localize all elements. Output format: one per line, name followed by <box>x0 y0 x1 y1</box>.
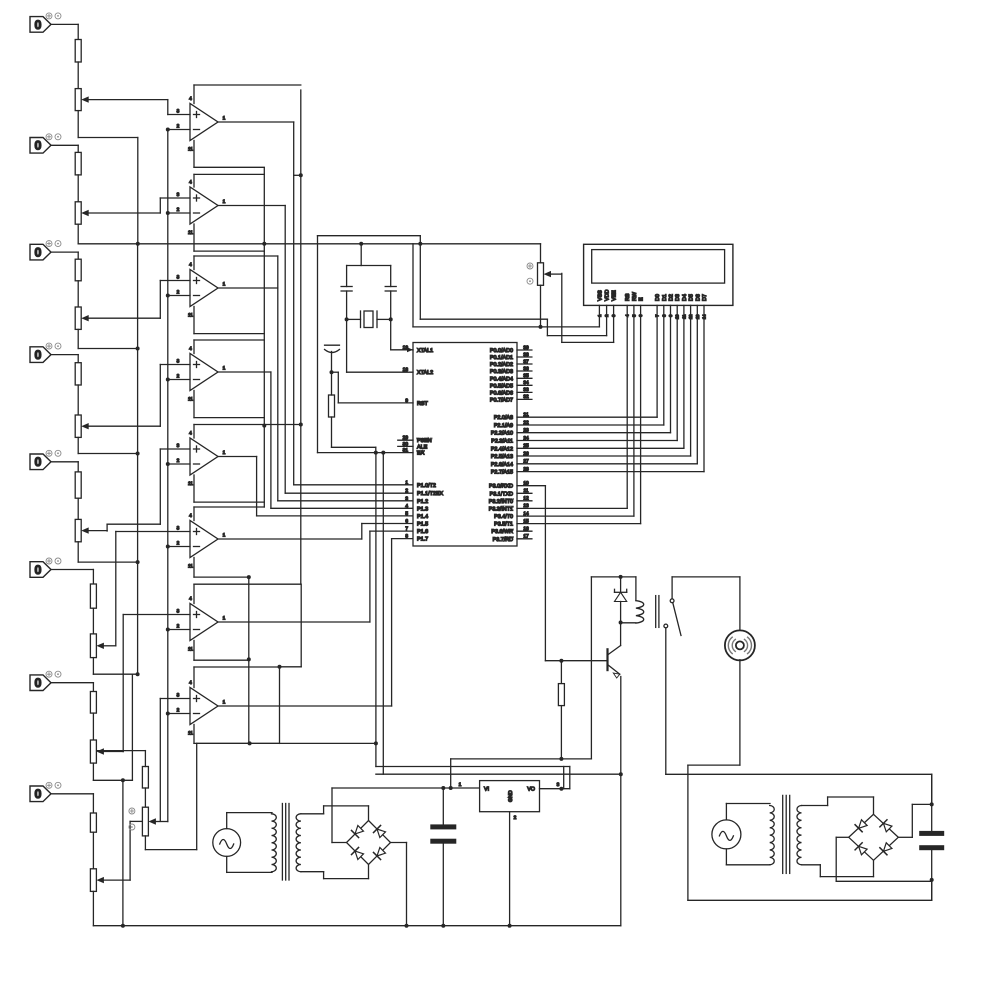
motor M1 <box>672 577 755 661</box>
svg-text:P2.6/A14: P2.6/A14 <box>491 462 513 468</box>
svg-text:P1.4: P1.4 <box>417 514 428 520</box>
wire op5 V+ rail (pin 4) <box>194 425 301 439</box>
wire op7 output to P1.6 <box>218 531 413 622</box>
wire R6 to RV6 <box>92 608 94 634</box>
wire power column A x264 <box>262 168 266 507</box>
wire ladder row ch6 <box>93 672 139 676</box>
wire op8 V+ rail (pin 4) <box>194 667 280 688</box>
wire ladder row ch1 to riser <box>78 138 138 244</box>
svg-text:11: 11 <box>188 397 193 403</box>
wire op8 - input stub <box>166 712 190 716</box>
svg-text:4: 4 <box>405 503 408 509</box>
resistor R5 <box>75 472 81 498</box>
wire TR2 secondary top to bridge <box>802 797 874 814</box>
svg-text:P2.5/A13: P2.5/A13 <box>491 454 513 460</box>
input terminal flag IN3 <box>30 241 61 260</box>
AC source V2 <box>712 804 770 865</box>
svg-text:D4: D4 <box>682 294 688 301</box>
svg-text:P1.6: P1.6 <box>417 529 428 535</box>
svg-text:2: 2 <box>514 815 517 821</box>
switch contact SW (relay) <box>664 577 681 774</box>
wire op2 - input stub <box>166 211 190 215</box>
svg-text:P0.0/AD0: P0.0/AD0 <box>490 348 513 354</box>
potentiometer RV4 <box>75 415 160 437</box>
wire inverting reference bus x168 <box>167 130 169 714</box>
svg-text:0: 0 <box>35 563 42 577</box>
svg-text:4: 4 <box>189 680 192 686</box>
wire flag IN3 to divider column <box>51 252 78 259</box>
svg-text:11: 11 <box>188 147 193 153</box>
svg-text:P2.3/A11: P2.3/A11 <box>491 439 513 445</box>
wire Q1 emitter to ground rail <box>619 677 623 926</box>
wire op5 GND rail (pin 11) <box>194 475 264 502</box>
svg-text:VSS: VSS <box>597 290 603 301</box>
wire ladder row ch4 <box>78 452 139 456</box>
wire R7 to RV7 <box>92 713 94 740</box>
svg-text:0: 0 <box>35 18 42 32</box>
svg-text:0: 0 <box>35 787 42 801</box>
LCD module LCD1 <box>584 244 733 319</box>
svg-text:3: 3 <box>177 609 180 615</box>
wire op7 - input stub <box>166 628 190 632</box>
svg-text:E: E <box>639 297 645 301</box>
crystal X1 <box>345 311 393 328</box>
wire op3 - input stub <box>166 294 190 298</box>
input terminal flag IN7 <box>30 671 61 690</box>
wire XTAL2 <box>347 319 413 372</box>
input terminal flag IN5 <box>30 450 61 469</box>
wire LCD data bus D0-D7 to P2 <box>517 305 704 471</box>
wire R2 to RV2 <box>77 175 79 202</box>
transformer TR2 <box>770 795 802 873</box>
wire BR2 left output <box>836 837 932 881</box>
wire emitter return <box>376 773 621 775</box>
potentiometer RV9 (reference) <box>129 807 168 836</box>
svg-text:0: 0 <box>35 246 42 260</box>
potentiometer RV7 <box>90 740 123 763</box>
svg-text:17: 17 <box>523 534 529 540</box>
capacitor C3 (reset) <box>325 345 340 374</box>
wire RV7 bottom <box>92 763 94 780</box>
wire MCU P2 pin numbers <box>523 412 529 472</box>
wire R3 to RV3 <box>77 281 79 307</box>
svg-text:0: 0 <box>35 455 42 469</box>
wire MCU P3 stubs <box>517 481 532 540</box>
wire R8 to RV8 <box>92 832 94 869</box>
voltage regulator U10 7805 <box>459 781 560 821</box>
svg-text:6: 6 <box>405 519 408 525</box>
svg-text:P3.1/TXD: P3.1/TXD <box>490 491 513 497</box>
svg-text:3: 3 <box>177 443 180 449</box>
wire RV6 wiper riser to op6 + <box>115 532 117 646</box>
resistor R6 <box>90 584 96 608</box>
op-amp U5 <box>177 431 226 488</box>
capacitor C1 <box>341 266 352 320</box>
wire op8 bottom rail extension <box>197 741 378 745</box>
diode D1 (flyback) <box>615 577 627 625</box>
wire ladder riser to ground rail <box>121 780 125 927</box>
resistor R4 <box>75 363 81 385</box>
svg-text:P1.0/T2: P1.0/T2 <box>417 483 436 489</box>
svg-text:D7: D7 <box>702 294 708 301</box>
svg-text:0: 0 <box>35 676 42 690</box>
svg-text:P0.3/AD3: P0.3/AD3 <box>490 369 513 375</box>
wire long vertical x383 <box>382 453 384 775</box>
wire R4 to RV4 <box>77 385 79 415</box>
svg-text:4: 4 <box>189 262 192 268</box>
svg-text:1: 1 <box>223 533 226 539</box>
svg-text:11: 11 <box>188 647 193 653</box>
svg-text:P0.2/AD2: P0.2/AD2 <box>490 362 513 368</box>
wire op6 V+ rail (pin 4) <box>194 507 264 521</box>
svg-text:36: 36 <box>523 366 529 372</box>
op-amp U6 <box>177 513 226 570</box>
wire relay supply rail <box>591 575 636 759</box>
op-amp U2 <box>177 180 226 237</box>
wire op3 GND rail (pin 11) <box>194 307 264 334</box>
wire XTAL1 <box>391 319 413 352</box>
svg-text:P1.2: P1.2 <box>417 499 428 505</box>
wire op6 + input <box>116 531 190 533</box>
wire flag IN5 to divider column <box>51 462 78 472</box>
wire R1 to RV1 <box>77 62 79 89</box>
svg-text:P0.5/AD5: P0.5/AD5 <box>490 383 513 389</box>
svg-text:11: 11 <box>188 481 193 487</box>
wire crystal top node <box>347 244 391 266</box>
wire op1 - input stub <box>166 128 190 132</box>
svg-text:1: 1 <box>223 450 226 456</box>
svg-text:11: 11 <box>188 564 193 570</box>
wire op8 GND rail (pin 11) <box>194 725 278 744</box>
svg-text:XTAL1: XTAL1 <box>417 348 433 354</box>
wire GND drop to LCD VSS <box>413 244 599 329</box>
wire RST node jog <box>332 372 414 403</box>
svg-text:2: 2 <box>177 207 180 213</box>
svg-text:32: 32 <box>523 394 529 400</box>
svg-text:39: 39 <box>523 345 529 351</box>
svg-text:2: 2 <box>405 488 408 494</box>
wire RV5 bottom <box>77 542 79 562</box>
wire BR1 - output to ground rail <box>391 843 409 928</box>
svg-text:3: 3 <box>177 275 180 281</box>
potentiometer RV10 (LCD contrast) <box>527 244 562 327</box>
svg-text:XTAL2: XTAL2 <box>417 370 433 376</box>
wire op3 + input <box>160 281 190 319</box>
svg-text:1: 1 <box>223 616 226 622</box>
wire RV6 bottom <box>92 658 94 675</box>
svg-text:4: 4 <box>189 96 192 102</box>
wire ladder main ground row y244 <box>78 242 540 246</box>
potentiometer RV1 <box>75 89 168 111</box>
capacitor C4 (smoothing) <box>430 788 456 928</box>
svg-text:2: 2 <box>177 124 180 130</box>
wire MCU P0 stubs <box>517 345 532 400</box>
op-amp U1 <box>177 96 226 153</box>
wire TR1 secondary top to bridge <box>301 806 369 821</box>
wire op7 V+ rail (pin 4) <box>194 584 301 603</box>
wire RV9 wiper to inverting bus <box>167 714 169 822</box>
wire RV2 bottom <box>77 224 79 244</box>
svg-text:1: 1 <box>405 480 408 486</box>
wire op1 GND rail (pin 11) <box>194 141 264 168</box>
wire power column low x249 <box>247 575 251 743</box>
wire EA tie-high run <box>318 236 421 455</box>
wire op4 + input <box>160 365 190 427</box>
svg-text:P1.5: P1.5 <box>417 522 428 528</box>
svg-text:RS: RS <box>625 293 631 301</box>
bridge rectifier BR1 <box>347 821 391 865</box>
svg-text:12: 12 <box>523 496 529 502</box>
svg-text:P2.7/A15: P2.7/A15 <box>491 470 513 476</box>
resistor R3 <box>75 259 81 281</box>
svg-text:GND: GND <box>508 790 514 802</box>
op-amp U4 <box>177 346 226 403</box>
svg-text:7: 7 <box>405 526 408 532</box>
wire TR1 secondary bottom to bridge <box>301 865 369 879</box>
svg-text:2: 2 <box>177 290 180 296</box>
op-amp U3 <box>177 262 226 319</box>
wire flag IN4 to divider column <box>51 355 78 363</box>
svg-text:VO: VO <box>527 787 535 793</box>
svg-text:1: 1 <box>223 199 226 205</box>
svg-text:P0.7/AD7: P0.7/AD7 <box>490 397 513 403</box>
wire op6 output to P1.5 <box>218 524 413 540</box>
wire op5 - input stub <box>166 462 190 466</box>
wire op8 + feed riser <box>159 699 161 822</box>
microcontroller U9 AT89C51 <box>403 343 517 547</box>
svg-text:3: 3 <box>405 496 408 502</box>
svg-text:11: 11 <box>188 230 193 236</box>
wire U10 VO loop <box>376 767 570 791</box>
wire motor to right supply <box>688 660 740 901</box>
wire flag IN7 to divider column <box>51 683 93 692</box>
wire RV7 wiper riser to op7 + <box>122 615 124 752</box>
input terminal flag IN6 <box>30 558 61 577</box>
svg-text:P1.1/T2EX: P1.1/T2EX <box>417 491 443 497</box>
potentiometer RV6 <box>90 634 115 658</box>
svg-text:P2.0/A8: P2.0/A8 <box>494 415 513 421</box>
resistor R10 (reset pulldown) <box>329 372 335 417</box>
svg-text:D2: D2 <box>669 294 675 301</box>
svg-text:2: 2 <box>177 541 180 547</box>
svg-text:VI: VI <box>484 787 489 793</box>
wire right supply loop <box>688 774 932 900</box>
wire op1 output to P1.0 <box>218 122 413 485</box>
wire op5 + input <box>107 449 190 531</box>
wire op4 output to P1.3 <box>218 372 413 508</box>
resistor R2 <box>75 152 81 175</box>
wire RV9 bottom loop <box>145 743 196 849</box>
wire ladder row ch3 <box>78 347 139 351</box>
svg-text:37: 37 <box>523 359 529 365</box>
wire RV8 wiper riser <box>130 821 142 880</box>
wire RV3 bottom <box>77 329 79 348</box>
svg-text:3: 3 <box>177 359 180 365</box>
svg-text:1: 1 <box>223 366 226 372</box>
potentiometer RV2 <box>75 202 160 224</box>
potentiometer RV5 <box>75 519 107 541</box>
resistor R8 <box>90 813 96 832</box>
input terminal flag IN8 <box>30 782 61 801</box>
svg-text:D0: D0 <box>655 294 661 301</box>
wire VCC drop to LCD VDD <box>420 236 606 336</box>
svg-text:3: 3 <box>177 192 180 198</box>
potentiometer RV8 <box>90 869 130 892</box>
svg-text:VDD: VDD <box>605 290 611 301</box>
svg-text:0: 0 <box>35 348 42 362</box>
wire ladder riser x137 <box>137 244 139 674</box>
wire op4 V+ rail (pin 4) <box>194 340 264 354</box>
wire BR1 + output <box>332 786 480 843</box>
wire flag IN6 to divider column <box>51 570 93 585</box>
svg-text:P0.1/AD1: P0.1/AD1 <box>490 355 513 361</box>
wire ladder riser ch6-ch7 <box>131 674 133 780</box>
svg-text:11: 11 <box>188 731 193 737</box>
resistor R11 (base) <box>558 661 564 761</box>
wire op3 output to P1.2 <box>218 256 413 501</box>
wire PSEN stub <box>398 439 413 441</box>
wire op7 GND rail (pin 11) <box>194 641 249 661</box>
svg-text:2: 2 <box>177 458 180 464</box>
svg-text:1: 1 <box>223 116 226 122</box>
resistor R9 (reference divider top) <box>97 751 149 788</box>
svg-text:2: 2 <box>177 708 180 714</box>
svg-text:D3: D3 <box>675 294 681 301</box>
op-amp U8 <box>177 680 226 737</box>
svg-text:4: 4 <box>189 431 192 437</box>
wire op7 + input <box>123 614 190 616</box>
svg-text:4: 4 <box>189 596 192 602</box>
svg-text:ALE: ALE <box>417 444 428 450</box>
wire ladder row ch5 <box>78 560 139 564</box>
svg-text:3: 3 <box>177 693 180 699</box>
wire ladder row ch7 <box>93 778 132 782</box>
wire R5 to RV5 <box>77 498 79 519</box>
svg-text:P0.6/AD6: P0.6/AD6 <box>490 390 513 396</box>
wire switch to right supply <box>666 773 932 775</box>
svg-text:P0.4/AD4: P0.4/AD4 <box>490 376 513 382</box>
wire op2 + input <box>160 198 190 213</box>
wire op3 V+ rail (pin 4) <box>194 256 278 270</box>
wire ALE stub <box>398 445 413 447</box>
svg-text:11: 11 <box>524 488 529 494</box>
svg-text:1: 1 <box>223 282 226 288</box>
wire op8 + input <box>160 698 190 700</box>
svg-text:RW: RW <box>632 291 638 301</box>
wire BR2 right output <box>898 804 931 837</box>
svg-text:P1.7: P1.7 <box>417 537 428 543</box>
svg-text:P3.6/WR: P3.6/WR <box>491 529 513 535</box>
AC source V1 <box>213 813 272 873</box>
wire TR2 secondary bottom to bridge <box>802 860 874 876</box>
svg-text:P3.3/INT1: P3.3/INT1 <box>489 506 513 512</box>
input terminal flag IN4 <box>30 343 61 362</box>
wire R9 to RV9 <box>144 788 146 807</box>
wire op4 - input stub <box>166 378 190 382</box>
wire op8 output to P1.7 <box>218 539 413 706</box>
svg-text:P3.2/INT0: P3.2/INT0 <box>489 499 513 505</box>
wire op2 V+ rail (pin 4) <box>194 174 264 187</box>
svg-text:P2.4/A12: P2.4/A12 <box>491 446 513 452</box>
svg-text:D5: D5 <box>689 294 695 301</box>
capacitor C2 <box>385 266 396 320</box>
svg-text:EA: EA <box>417 451 425 457</box>
wire op4 GND rail (pin 11) <box>194 391 264 418</box>
op-amp U7 <box>177 596 226 653</box>
svg-text:D1: D1 <box>662 294 668 301</box>
potentiometer RV3 <box>75 307 160 329</box>
svg-text:D6: D6 <box>695 294 701 301</box>
svg-text:P2.2/A10: P2.2/A10 <box>491 431 513 437</box>
input terminal flag IN1 <box>30 13 61 32</box>
wire long vertical x376 <box>375 453 377 767</box>
input terminal flag IN2 <box>30 134 61 153</box>
svg-text:P2.1/A9: P2.1/A9 <box>494 423 513 429</box>
svg-text:PSEN: PSEN <box>417 438 432 444</box>
wire U10 GND to ground rail <box>508 812 512 928</box>
wire flag IN8 to divider column <box>51 794 93 813</box>
svg-text:3: 3 <box>177 526 180 532</box>
wire unregulated supply to relay <box>451 759 592 788</box>
svg-text:2: 2 <box>177 374 180 380</box>
ground rail <box>93 925 620 927</box>
svg-text:34: 34 <box>523 380 529 386</box>
svg-text:P3.0/RXD: P3.0/RXD <box>489 484 513 490</box>
transformer TR1 <box>272 804 301 881</box>
svg-text:4: 4 <box>189 346 192 352</box>
svg-text:0: 0 <box>35 139 42 153</box>
svg-text:8: 8 <box>405 534 408 540</box>
wire op2 output to P1.1 <box>218 206 413 494</box>
svg-text:16: 16 <box>523 526 529 532</box>
wire LCD VDD pin <box>606 305 608 335</box>
svg-text:4: 4 <box>189 513 192 519</box>
wire LCD RS to P3.3 <box>517 305 627 508</box>
svg-text:5: 5 <box>405 511 408 517</box>
svg-text:P1.3: P1.3 <box>417 506 428 512</box>
svg-text:P3.5/T1: P3.5/T1 <box>494 522 513 528</box>
wire op6 GND rail (pin 11) <box>194 558 249 578</box>
svg-text:33: 33 <box>523 387 529 393</box>
svg-text:3: 3 <box>177 109 180 115</box>
wire op1 + input <box>168 100 190 115</box>
svg-text:2: 2 <box>177 624 180 630</box>
wire op1 V+ rail (pin 4) <box>194 85 301 104</box>
wire RV8 bottom <box>92 891 94 925</box>
wire flag IN2 to divider column <box>51 145 78 152</box>
svg-text:VEE: VEE <box>612 290 618 301</box>
wire op7 rail zigzag <box>278 585 302 743</box>
wire power column B x301 <box>294 90 303 584</box>
svg-text:P3.4/T0: P3.4/T0 <box>494 514 513 520</box>
svg-text:1: 1 <box>223 700 226 706</box>
wire LCD E to P3.5 <box>517 305 641 523</box>
capacitor C5 <box>919 774 944 900</box>
wire LCD RW to P3.4 <box>517 305 634 516</box>
wire RV1 bottom <box>77 111 79 138</box>
svg-text:35: 35 <box>523 373 529 379</box>
svg-text:3: 3 <box>557 782 560 788</box>
svg-text:P3.7/RD: P3.7/RD <box>493 537 513 543</box>
wire R10 bottom to EA row <box>332 417 376 453</box>
resistor R1 <box>75 40 81 63</box>
bridge rectifier BR2 <box>849 814 899 860</box>
wire Q1 base from P3.0 <box>517 486 606 663</box>
wire RV4 bottom <box>77 437 79 453</box>
svg-text:1: 1 <box>459 782 462 788</box>
wire LCD VSS pin <box>598 305 600 327</box>
svg-text:RST: RST <box>417 401 428 407</box>
